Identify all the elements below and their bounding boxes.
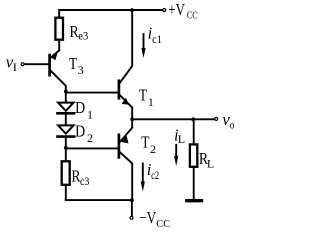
resistor Rc3 bbox=[62, 161, 70, 185]
wire vI input bbox=[24, 63, 48, 65]
svg-text:c3: c3 bbox=[80, 174, 89, 188]
node E output junction (T1/T2 emitters) bbox=[130, 118, 134, 122]
svg-text:D: D bbox=[75, 122, 85, 141]
arrow iL bbox=[174, 145, 178, 166]
svg-text:D: D bbox=[75, 98, 85, 117]
svg-text:I: I bbox=[13, 60, 17, 74]
wire -Vcc terminal stub bbox=[131, 200, 133, 216]
label D2 bbox=[75, 122, 93, 145]
resistor RL bbox=[190, 144, 197, 166]
wire output to vo bbox=[132, 118, 214, 120]
node F junction output / RL bbox=[191, 117, 195, 121]
wire bottom rail -Vcc bbox=[66, 199, 132, 201]
arrow ic1 bbox=[141, 34, 145, 58]
node top-rail junction bbox=[130, 8, 134, 12]
label RL bbox=[199, 149, 214, 171]
transistor T1 emitter arrow (NPN, points out) bbox=[122, 98, 129, 105]
wire D2 to node B bbox=[65, 137, 67, 148]
wire Re3 bottom to T3 emitter bbox=[58, 40, 60, 51]
svg-text:T: T bbox=[139, 85, 147, 104]
wire node A to T1 base bbox=[66, 92, 118, 94]
svg-text:CC: CC bbox=[187, 11, 198, 22]
diode D1 bbox=[58, 103, 75, 114]
transistor T2 base bar bbox=[118, 135, 121, 158]
label Rc3 bbox=[71, 167, 89, 188]
svg-text:−V: −V bbox=[139, 208, 156, 227]
wire D1 to D2 bbox=[65, 113, 67, 125]
node B junction D2 / Rc3 / T2 base bbox=[64, 146, 68, 150]
label D1 bbox=[75, 98, 93, 121]
svg-text:3: 3 bbox=[78, 63, 84, 77]
terminal vI circle bbox=[21, 63, 24, 66]
svg-text:T: T bbox=[69, 54, 77, 73]
arrow ic2 bbox=[141, 164, 145, 192]
transistor T1 emitter lead bbox=[120, 95, 132, 119]
label vI bbox=[6, 53, 17, 74]
transistor T3 emitter arrow (PNP, points to base) bbox=[51, 52, 58, 60]
label -Vcc bbox=[139, 208, 170, 230]
svg-text:2: 2 bbox=[150, 142, 156, 156]
svg-text:1: 1 bbox=[148, 95, 154, 109]
svg-text:o: o bbox=[230, 118, 235, 132]
label ic2 current bbox=[147, 160, 159, 182]
svg-text:L: L bbox=[207, 157, 214, 171]
transistor T3 emitter lead bbox=[51, 50, 59, 57]
svg-text:+V: +V bbox=[168, 0, 185, 19]
svg-text:1: 1 bbox=[87, 107, 93, 121]
transistor T1 base bar bbox=[118, 81, 121, 98]
transistor T3 collector lead bbox=[51, 71, 66, 92]
wire node B down to Rc3 bbox=[65, 148, 67, 162]
svg-text:c2: c2 bbox=[151, 168, 159, 182]
transistor T2 emitter arrow (PNP, points to base) bbox=[120, 135, 128, 143]
wire node B to T2 base bbox=[66, 147, 118, 149]
svg-text:c1: c1 bbox=[152, 32, 162, 46]
label T1 bbox=[139, 85, 154, 109]
wire top rail +Vcc bbox=[59, 9, 162, 11]
svg-text:L: L bbox=[178, 132, 185, 146]
label T3 bbox=[69, 54, 84, 77]
wire RL top stub bbox=[193, 119, 195, 144]
diode D2 bbox=[58, 125, 75, 136]
svg-text:CC: CC bbox=[156, 219, 170, 230]
terminal -Vcc circle bbox=[130, 216, 133, 219]
node C junction bottom rail / T2 collector bbox=[130, 198, 134, 202]
ground bbox=[187, 199, 202, 202]
svg-text:T: T bbox=[141, 132, 149, 151]
label iL current bbox=[174, 126, 185, 146]
terminal vo circle bbox=[215, 117, 218, 120]
label ic1 current bbox=[148, 23, 162, 46]
transistor T2 emitter lead bbox=[120, 119, 132, 141]
wire Re3 top stub bbox=[58, 10, 60, 18]
label +Vcc bbox=[168, 0, 198, 21]
wire Rc3 bottom to rail bbox=[65, 185, 67, 200]
transistor T1 collector lead bbox=[120, 10, 132, 82]
label T2 bbox=[141, 132, 156, 155]
transistor T3 base bar bbox=[48, 55, 51, 75]
resistor Re3 bbox=[55, 18, 63, 40]
node A junction T3 collector / D1 / T1 base bbox=[64, 90, 68, 94]
label Re3 bbox=[70, 22, 89, 42]
svg-text:2: 2 bbox=[87, 131, 93, 145]
terminal +Vcc circle bbox=[163, 9, 166, 12]
svg-text:e3: e3 bbox=[78, 28, 88, 42]
wire RL bottom stub bbox=[193, 167, 195, 199]
wire node A down to D1 bbox=[65, 92, 67, 103]
label vo bbox=[222, 110, 234, 131]
transistor T2 collector lead bbox=[120, 152, 132, 200]
